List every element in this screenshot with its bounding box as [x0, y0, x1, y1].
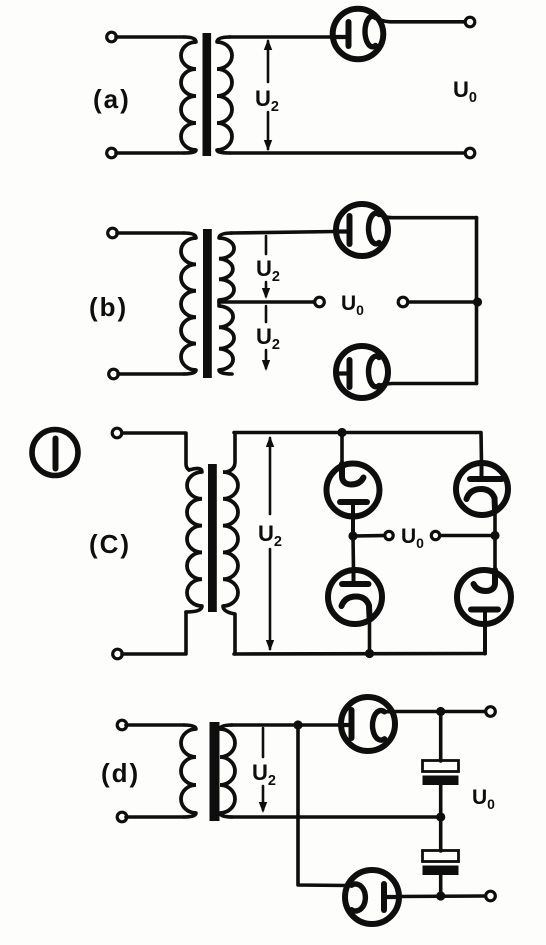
terminal a-out-top — [465, 17, 475, 27]
wire d left drop — [298, 725, 347, 886]
svg-text:U0: U0 — [341, 292, 364, 318]
label (a) — [93, 84, 131, 114]
wire a tube out — [376, 18, 464, 22]
transformer T2 core — [203, 229, 212, 378]
tube V6 anode — [471, 610, 498, 654]
tube V4 cathode — [342, 464, 364, 485]
transformer T3 secondary winding — [223, 433, 238, 654]
tube V1 anode — [334, 22, 349, 46]
terminal d-out-bottom — [486, 891, 496, 901]
measure line U2(a) lower — [267, 112, 270, 149]
tube V8 envelope — [341, 697, 395, 751]
terminal b-in-top — [108, 228, 118, 238]
wire d cap1 lead — [439, 712, 443, 762]
measure line U2(a) upper — [267, 41, 270, 82]
wire b primary top — [117, 231, 184, 235]
wire c right-arm mid — [493, 510, 497, 570]
wire a primary bottom — [116, 151, 184, 155]
measure line U2(b) upper-a — [265, 236, 268, 254]
figure number 1 — [32, 430, 78, 476]
wire c left-arm mid — [351, 536, 355, 570]
wire d secondary top — [231, 723, 341, 727]
transformer T4 core — [210, 722, 220, 821]
tube V9 envelope — [345, 870, 399, 924]
arrow U2(a) top — [264, 39, 272, 50]
label (b) — [89, 292, 128, 322]
terminal a-in-bottom — [107, 148, 117, 158]
junction b bus — [473, 297, 482, 306]
transformer T1 core — [203, 33, 212, 156]
tube V7 cathode — [342, 597, 370, 618]
capacitor C1 plate- — [423, 776, 459, 786]
tube V1 envelope — [333, 9, 384, 60]
wire a bottom rail — [230, 151, 464, 155]
transformer T3 primary winding — [186, 468, 202, 612]
tube V7 envelope — [328, 570, 382, 624]
tube V1 cathode — [365, 16, 376, 47]
label U2 (b) upper — [256, 256, 280, 285]
wire d cap1 to mid — [439, 785, 443, 817]
transformer T4 secondary winding — [220, 725, 235, 817]
arrow U2(b) mid — [262, 288, 270, 299]
tube V3 anode — [336, 360, 350, 387]
tube V5 cathode — [467, 489, 496, 510]
arrow U2(d) bottom — [259, 802, 267, 813]
tube V7 anode — [342, 570, 369, 584]
transformer T1 secondary winding — [217, 37, 232, 153]
wire b primary bottom — [118, 372, 184, 376]
label U2 (b) lower — [256, 324, 280, 353]
tube V4 envelope — [327, 464, 380, 517]
wire b center tap — [220, 300, 314, 304]
terminal d-in-top — [117, 720, 127, 730]
tube V9 anode — [384, 884, 398, 910]
terminal b-in-bottom — [109, 369, 119, 379]
wire d tube-top out — [385, 710, 486, 714]
terminal b-tap — [315, 297, 325, 307]
tube V8 cathode — [373, 711, 385, 741]
svg-text:U2: U2 — [252, 760, 276, 789]
svg-text:(C): (C) — [89, 529, 131, 559]
terminal d-out-top — [486, 707, 496, 717]
junction d mid — [436, 812, 445, 821]
wire b tube-bottom out — [379, 384, 476, 386]
measure line U2(b) upper-b — [265, 282, 268, 296]
tube V4 anode — [340, 502, 367, 532]
transformer T1 primary winding — [181, 37, 196, 153]
wire c mid-left — [353, 534, 384, 538]
measure line U2(d) upper — [262, 728, 265, 757]
tube V2 envelope — [336, 204, 388, 256]
svg-text:U2: U2 — [256, 256, 280, 285]
junction d bottom — [436, 891, 445, 900]
terminal a-in-top — [107, 32, 117, 42]
arrow U2(c) top — [266, 436, 274, 447]
capacitor C2 plate+ — [423, 851, 459, 862]
tube V6 cathode — [474, 570, 496, 591]
svg-text:U0: U0 — [401, 525, 424, 551]
tube V8 anode — [341, 710, 352, 738]
label U2 (d) — [252, 760, 276, 789]
label U0 (b) — [341, 292, 364, 318]
wire d primary bottom — [126, 815, 184, 819]
label U2 (c) — [258, 521, 282, 550]
transformer T2 secondary winding upper — [219, 233, 234, 302]
tube V2 cathode — [369, 213, 380, 244]
arrow U2(a) bottom — [264, 140, 272, 151]
wire c right-arm top — [479, 433, 483, 464]
wire b bus — [475, 218, 479, 384]
tube V2 anode — [336, 216, 350, 244]
junction c bottom — [365, 649, 374, 658]
svg-text:(b): (b) — [89, 292, 128, 322]
label (d) — [101, 758, 140, 788]
wire a secondary top — [229, 35, 334, 39]
transformer T4 primary winding — [181, 725, 196, 817]
tube V5 anode — [470, 463, 502, 479]
tube V5 envelope — [456, 463, 508, 515]
tube V3 envelope — [336, 346, 388, 398]
measure line U2(c) upper — [269, 438, 272, 514]
wire c bottom rail — [234, 652, 485, 656]
junction d top — [293, 720, 302, 729]
terminal d-in-bottom — [117, 812, 127, 822]
transformer T3 core — [208, 464, 217, 612]
terminal b-out — [398, 297, 408, 307]
svg-text:U2: U2 — [258, 521, 282, 550]
label U0 (d) — [472, 786, 495, 812]
tube V6 envelope — [457, 570, 511, 624]
wire b secondary top — [231, 232, 336, 234]
label U0 (c) — [401, 525, 424, 551]
wire c left-bottom lead — [368, 617, 372, 654]
measure line U2(b) lower-a — [265, 306, 268, 322]
arrow U2(b) bottom — [262, 360, 270, 371]
wire b tube-top out — [379, 215, 476, 218]
junction c top-left — [337, 428, 346, 437]
wire c top rail — [234, 431, 480, 435]
capacitor C2 plate- — [423, 866, 459, 876]
terminal c-out-left — [385, 531, 393, 539]
wire a primary top — [116, 35, 184, 39]
svg-text:U2: U2 — [255, 86, 279, 115]
label U2 (a) — [255, 86, 279, 115]
measure line U2(b) lower-b — [265, 350, 268, 368]
label U0 (a) — [453, 77, 477, 106]
svg-text:U0: U0 — [472, 786, 495, 812]
wire d bottom rail — [398, 894, 485, 898]
svg-text:(a): (a) — [93, 84, 131, 114]
svg-text:U0: U0 — [453, 77, 477, 106]
svg-text:U2: U2 — [256, 324, 280, 353]
arrow U2(c) bottom — [266, 640, 274, 651]
terminal c-out-right — [431, 531, 439, 539]
wire d primary top — [126, 723, 184, 727]
terminal c-in-bottom — [113, 649, 123, 659]
measure line U2(d) lower — [262, 786, 265, 810]
transformer T2 primary winding — [181, 233, 196, 374]
wire d cap2 lead — [439, 817, 443, 851]
terminal c-in-top — [112, 428, 122, 438]
wire c in-top — [122, 433, 189, 470]
tube V9 cathode — [347, 884, 365, 911]
capacitor C1 plate+ — [423, 761, 459, 772]
transformer T2 secondary winding lower — [219, 302, 234, 374]
wire c in-bottom — [122, 612, 186, 654]
junction c mid-right — [490, 531, 499, 540]
wire b tap to bus — [408, 300, 477, 304]
wire c left-arm top — [340, 433, 344, 467]
wire d cap2 to bottom — [439, 875, 443, 896]
junction c mid-left — [348, 531, 357, 540]
label (C) — [89, 529, 131, 559]
junction d out-top — [436, 707, 445, 716]
wire c mid-right — [440, 534, 495, 538]
wire d secondary bottom — [231, 815, 437, 819]
measure line U2(c) lower — [269, 549, 272, 649]
tube V3 cathode — [369, 356, 380, 387]
svg-text:(d): (d) — [101, 758, 140, 788]
terminal a-out-bottom — [465, 148, 475, 158]
